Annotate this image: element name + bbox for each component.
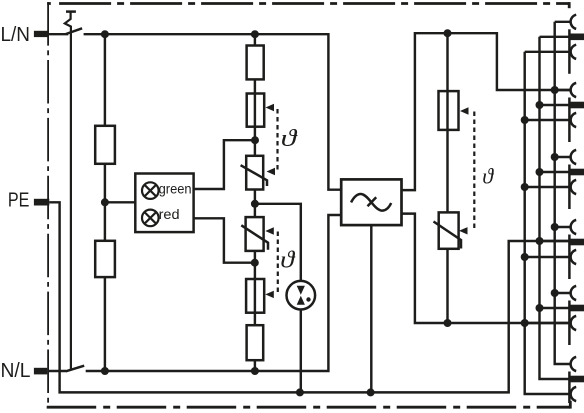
svg-text:L/N: L/N: [1, 23, 31, 46]
svg-text:green: green: [159, 182, 192, 197]
svg-text:red: red: [159, 207, 180, 222]
svg-text:PE: PE: [8, 188, 30, 211]
svg-text:ϑ: ϑ: [281, 126, 298, 152]
svg-text:ϑ: ϑ: [280, 247, 295, 273]
svg-text:ϑ: ϑ: [482, 164, 494, 189]
svg-text:N/L: N/L: [1, 359, 31, 382]
